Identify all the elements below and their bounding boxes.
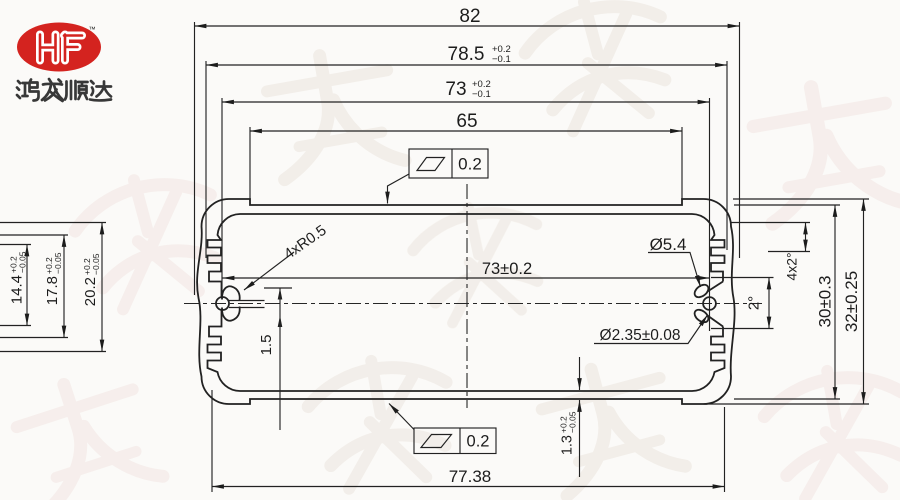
logo ellipse — [17, 23, 101, 72]
svg-text:14.4: 14.4 — [9, 275, 26, 304]
leader Ø2.35 — [594, 315, 708, 344]
dim 20.2 extension lines — [0, 223, 106, 352]
svg-text:0.2: 0.2 — [467, 433, 490, 451]
dim 1.5 arrows — [278, 288, 283, 300]
bottom flatness frame leader — [389, 404, 414, 430]
dim 78.5 line — [206, 64, 727, 66]
svg-text:73±0.2: 73±0.2 — [482, 260, 532, 278]
leader Ø5.4 — [648, 253, 701, 288]
right screw boss pilot hole — [703, 297, 716, 310]
svg-text:0.2: 0.2 — [458, 155, 482, 174]
left pcb slot lines — [229, 301, 265, 308]
horizontal centerline — [184, 303, 762, 305]
dim 65 line — [250, 130, 682, 132]
dim 4x2° extension lines — [731, 223, 810, 252]
bottom flatness frame — [414, 428, 496, 454]
dim 1.3 lower arrow line — [579, 400, 581, 477]
svg-text:2°: 2° — [746, 296, 763, 310]
dim 32±0.25 line — [863, 199, 865, 404]
svg-text:−0.05: −0.05 — [53, 252, 63, 274]
svg-text:™: ™ — [89, 27, 96, 34]
dim 82 line — [195, 25, 740, 27]
top flatness frame — [409, 149, 488, 178]
left inner wall with serrations — [208, 214, 241, 298]
dim 1.5 tick and line — [264, 288, 292, 430]
inner top wall surface — [240, 213, 692, 215]
char hong — [17, 80, 39, 101]
dim 17.8 extension lines — [0, 235, 68, 338]
text 2° rotated — [746, 296, 763, 310]
svg-text:4xR0.5: 4xR0.5 — [281, 222, 330, 263]
svg-text:17.8: 17.8 — [44, 276, 61, 305]
svg-text:20.2: 20.2 — [82, 277, 99, 306]
dim 30±0.3 line — [834, 205, 836, 399]
right screw boss lower petal — [692, 307, 710, 324]
dim 73±0.2 line — [223, 277, 710, 279]
text 32±0.25 rotated — [842, 271, 861, 332]
right inner wall with serrations — [692, 214, 725, 282]
svg-text:82: 82 — [459, 6, 480, 27]
svg-text:−0.05: −0.05 — [91, 253, 101, 275]
profile outer contour — [197, 199, 735, 404]
text 14.4 +0.2/-0.05 rotated — [9, 251, 28, 304]
svg-text:1.5: 1.5 — [258, 335, 275, 356]
right boss lower taper — [708, 316, 724, 327]
svg-text:77.38: 77.38 — [449, 467, 492, 486]
svg-text:32±0.25: 32±0.25 — [842, 271, 861, 332]
dim 4x2° line — [805, 223, 807, 252]
svg-text:−0.1: −0.1 — [492, 54, 511, 65]
svg-text:4x2°: 4x2° — [784, 252, 800, 280]
dim 14.4 line — [26, 245, 28, 326]
svg-text:Ø5.4: Ø5.4 — [650, 235, 687, 254]
text 17.8 +0.2/-0.05 rotated — [44, 252, 63, 305]
dim 73 extension lines — [222, 98, 710, 331]
char fa — [42, 79, 63, 101]
dim 14.4 extension lines — [0, 245, 31, 326]
text 1.3 +0.2/-0.05 rotated — [559, 411, 578, 455]
text 1.5 rotated — [258, 335, 275, 356]
text 4x2° rotated — [784, 252, 800, 280]
text 20.2 +0.2/-0.05 rotated — [82, 253, 101, 306]
right boss upper taper — [708, 282, 724, 292]
top flatness frame leader — [388, 174, 410, 204]
dim 73 line — [222, 101, 710, 103]
char shun — [65, 81, 88, 100]
svg-text:−0.1: −0.1 — [472, 89, 491, 100]
vertical centerline — [466, 184, 468, 408]
dim 30±0.3 extension lines — [734, 205, 840, 399]
svg-text:73: 73 — [445, 79, 466, 100]
char da — [90, 81, 111, 100]
dim 78.5 extension lines — [206, 61, 727, 258]
text 4xR0.5 rotated — [281, 222, 330, 263]
dim 1.3 upper arrow line — [579, 357, 581, 390]
left screw boss upper jaw — [222, 286, 240, 300]
svg-text:78.5: 78.5 — [448, 44, 485, 65]
dim 20.2 line — [101, 223, 103, 352]
dim 82 extension lines — [195, 22, 740, 295]
svg-text:1.3: 1.3 — [560, 435, 576, 455]
text 30±0.3 rotated — [816, 276, 835, 328]
left screw boss pilot hole — [216, 297, 229, 310]
leader 4xR0.5 — [244, 252, 294, 290]
left screw boss lower jaw — [222, 307, 240, 321]
dim 32±0.25 extension lines — [704, 199, 870, 404]
logo chinese characters 鸿发顺达 (drawn) — [17, 79, 111, 101]
right screw boss upper petal — [692, 282, 710, 299]
dim 17.8 line — [63, 235, 65, 338]
dim 2° extension lines — [711, 278, 774, 329]
dim 77.38 line — [212, 486, 725, 488]
svg-text:Ø2.35±0.08: Ø2.35±0.08 — [600, 327, 681, 344]
dim 2° line — [768, 278, 770, 329]
inner bottom wall surface — [240, 390, 692, 392]
dim 77.38 extension lines — [212, 390, 725, 492]
svg-text:−0.05: −0.05 — [18, 251, 28, 273]
svg-text:65: 65 — [456, 111, 477, 132]
dim 65 extension lines — [250, 127, 682, 201]
main drawing — [184, 184, 762, 408]
svg-text:−0.05: −0.05 — [568, 411, 578, 433]
svg-text:30±0.3: 30±0.3 — [816, 276, 835, 328]
